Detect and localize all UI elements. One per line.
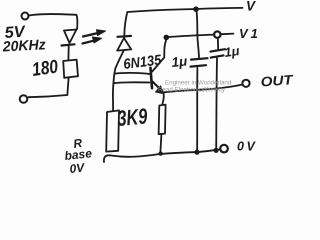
LED D1	[64, 30, 77, 44]
light emission arrows	[83, 33, 98, 37]
V1 supply rail	[167, 35, 214, 38]
wire C2 to 0V rail	[215, 58, 218, 150]
svg-text:V: V	[246, 0, 256, 14]
junction V rail / C1	[193, 6, 199, 12]
svg-text:Read ElectronicsWeekly: Read ElectronicsWeekly	[158, 87, 226, 94]
photodiode (6N135 internal)	[118, 35, 132, 38]
wire V rail down to photodiode cathode	[124, 12, 127, 35]
wire anode node to transistor base	[115, 73, 150, 74]
wire emitter to emitter resistor	[162, 94, 164, 105]
terminal input bottom	[20, 95, 28, 103]
wire base to base-resistor lead	[114, 81, 150, 84]
junction V1 rail / collector	[164, 35, 170, 41]
wire V rail to C1	[196, 10, 199, 57]
terminal V1 / C2 tap	[214, 31, 220, 37]
V supply rail	[128, 8, 243, 12]
svg-text:20KHz: 20KHz	[1, 37, 46, 55]
transistor Q1 base bar	[151, 68, 153, 88]
svg-text:0V: 0V	[237, 140, 257, 154]
wire emitter to OUT terminal	[165, 85, 242, 93]
junction 0V rail / emitter resistor	[158, 151, 162, 155]
wire C1 to 0V rail	[196, 68, 198, 152]
transistor Q1 collector	[152, 41, 166, 72]
wire photodiode anode down to base resistor	[113, 51, 124, 111]
terminal input top (5V 20kHz source +)	[22, 13, 29, 20]
transistor Q1 emitter	[153, 82, 162, 91]
junction 0V rail / C1	[194, 150, 199, 155]
capacitor C1	[191, 58, 208, 59]
svg-text:180: 180	[31, 56, 60, 80]
terminal 0V	[220, 145, 228, 153]
svg-text:1μ: 1μ	[223, 43, 240, 60]
wire emitter resistor to 0V rail	[160, 134, 161, 152]
wire R 180 to bottom terminal	[29, 78, 69, 97]
svg-text:0V: 0V	[69, 160, 86, 176]
terminal OUT	[242, 80, 249, 87]
svg-text:3K9: 3K9	[116, 103, 149, 131]
svg-text:1μ: 1μ	[171, 53, 188, 70]
wire LED cathode to R 180	[67, 46, 69, 60]
svg-text:Engineer in Wonderland: Engineer in Wonderland	[165, 80, 232, 87]
svg-text:OUT: OUT	[260, 72, 295, 89]
junction 0V rail / C2	[214, 148, 219, 153]
svg-text:V1: V1	[239, 26, 261, 41]
resistor R base 3K9	[106, 110, 119, 151]
capacitor C2	[211, 49, 226, 51]
wire V1 terminal to C2	[217, 38, 219, 49]
resistor emitter	[159, 105, 166, 135]
wire input top to LED anode	[29, 14, 78, 29]
resistor R 180	[63, 60, 78, 78]
0V rail	[104, 149, 221, 162]
